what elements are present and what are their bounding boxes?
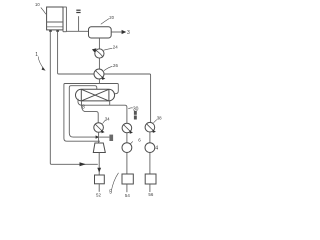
svg-text:8: 8: [82, 104, 85, 110]
svg-text:38: 38: [157, 115, 162, 120]
wire below box M: [126, 184, 128, 192]
label 30: [128, 107, 138, 113]
wire HX left to middle branch: [78, 99, 127, 123]
box L: [95, 175, 105, 184]
label 26: [104, 63, 118, 71]
loop outer top wire: [64, 84, 100, 142]
box M: [122, 174, 133, 184]
valve V4 left branch: [94, 123, 105, 134]
heat exchanger HX: [76, 89, 115, 101]
label pump M: [130, 141, 133, 144]
vent stub: [78, 16, 80, 31]
wire tank-left down: [50, 32, 98, 165]
wire V4 to trap: [98, 132, 100, 143]
down arrow left: [97, 168, 101, 173]
svg-text:34: 34: [105, 117, 110, 122]
pump R: [145, 143, 155, 153]
wire V5 to pump M: [126, 133, 128, 143]
svg-text:20: 20: [109, 15, 114, 20]
label 3r: [154, 115, 163, 122]
wire pump M to box M: [126, 153, 128, 175]
label 1: [35, 52, 45, 71]
trap crucible: [93, 143, 105, 153]
svg-text:1: 1: [35, 52, 38, 58]
wire tank-right down to valve V2: [58, 32, 94, 74]
valve V5 middle branch: [122, 123, 133, 134]
svg-text:54: 54: [125, 193, 130, 198]
wire HX left to left branch: [81, 101, 98, 123]
wire to box 28: [99, 136, 109, 138]
wire below box R: [149, 184, 151, 192]
wire pump R to box R: [149, 153, 151, 175]
wire vessel to V1: [98, 38, 100, 49]
valve V1: [92, 48, 104, 58]
svg-text:4: 4: [155, 145, 158, 151]
label 44: [103, 117, 111, 124]
wire tank to vessel: [66, 30, 88, 32]
label 32: [134, 111, 137, 120]
wire below box L: [98, 184, 100, 192]
vessel 20: [89, 27, 112, 38]
pump M: [122, 143, 132, 153]
wire V2 right to branch R: [104, 74, 151, 122]
svg-text:24: 24: [113, 45, 118, 50]
loop inner wire: [69, 86, 97, 137]
HX bottom stub: [109, 101, 111, 105]
label 10: [35, 2, 46, 14]
wire trap to box L: [98, 153, 100, 176]
label 24: [104, 45, 119, 51]
vessel outlet wire: [111, 31, 122, 33]
svg-text:3: 3: [127, 30, 130, 36]
tank inner horizontal: [47, 21, 63, 23]
svg-text:52: 52: [96, 192, 101, 197]
wire V2 down: [98, 79, 100, 84]
svg-text:10: 10: [35, 2, 40, 7]
outlet arrow: [122, 30, 127, 34]
tank side panel: [65, 7, 67, 32]
svg-text:56: 56: [148, 192, 153, 197]
tank inner horizontal 2: [47, 26, 63, 28]
loop right wire into HX: [99, 84, 118, 94]
component box 28: [109, 135, 113, 141]
wire V6 to pump R: [149, 132, 151, 143]
label 21 bars: [76, 10, 80, 13]
valve V6 right branch: [145, 122, 156, 133]
box R: [145, 174, 156, 184]
wire V1 to V2: [98, 58, 100, 69]
tank T10 outer: [47, 7, 63, 30]
valve V2: [94, 69, 105, 80]
svg-text:5: 5: [109, 189, 112, 195]
tank stub nipples: [49, 30, 59, 32]
arrow on feed wire: [80, 162, 87, 166]
arrow on inner loop: [96, 135, 100, 138]
label 20: [101, 15, 115, 24]
leader boxes: [109, 173, 118, 196]
svg-text:26: 26: [113, 63, 118, 68]
